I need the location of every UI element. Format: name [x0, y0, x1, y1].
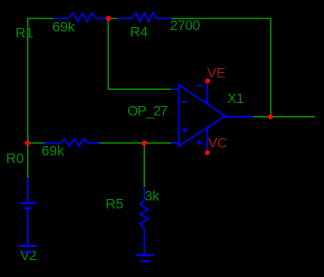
- node VE terminal dot: [205, 79, 210, 84]
- non-inverting input plus marker: [182, 127, 188, 133]
- svg-text:X1: X1: [227, 90, 244, 106]
- wire between junction and R4: [111, 18, 118, 20]
- battery V2 lead bottom: [27, 209, 29, 246]
- svg-text:2700: 2700: [170, 17, 200, 33]
- wire feedback horizontal to inverting input: [108, 88, 171, 90]
- pin stub non-inverting input of op-amp X1: [171, 142, 179, 144]
- wire from left junction to R0: [28, 142, 45, 144]
- battery V2 plates: [20, 203, 37, 208]
- resistor R4: [118, 13, 172, 22]
- svg-text:OP_27: OP_27: [127, 102, 168, 118]
- power pin VC line: [206, 128, 208, 153]
- wire right vertical to output: [270, 18, 272, 117]
- svg-text:69k: 69k: [42, 142, 66, 158]
- node output junction dot: [268, 114, 273, 119]
- node VC terminal dot: [205, 150, 210, 155]
- resistor R1: [54, 13, 106, 22]
- wire from R4 to top-right corner: [172, 18, 271, 20]
- svg-text:R0: R0: [6, 150, 24, 166]
- svg-text:R1: R1: [16, 24, 34, 40]
- inverting input minus marker: [182, 101, 187, 103]
- wire R5 branch vertical green: [143, 143, 145, 187]
- node junction dot R0 left (V2 branch): [25, 140, 30, 145]
- node junction dot (R1/R4/feedback): [106, 16, 111, 21]
- svg-text:69k: 69k: [52, 19, 76, 35]
- resistor R0: [45, 139, 100, 146]
- wire op-amp output lead (blue): [226, 116, 254, 118]
- wire feedback vertical to inverting input: [107, 19, 109, 90]
- svg-text:3k: 3k: [145, 188, 161, 204]
- svg-text:R5: R5: [106, 196, 124, 212]
- ground symbol under R5: [136, 255, 154, 261]
- pin stub inverting input of op-amp X1: [171, 88, 179, 90]
- svg-text:V2: V2: [20, 247, 37, 263]
- wire top-left vertical (node IN- branch): [27, 19, 29, 179]
- svg-text:R4: R4: [130, 23, 148, 39]
- resistor R5: [140, 187, 148, 254]
- op-amp X1 triangle: [179, 85, 226, 146]
- node junction dot (R0/R5/+input): [142, 140, 147, 145]
- svg-text:VE: VE: [207, 64, 226, 80]
- wire top horizontal left of R1: [27, 18, 53, 20]
- power pin VC plus marker: [196, 140, 202, 145]
- power pin VE minus marker: [197, 85, 203, 87]
- battery V2 lead top (blue): [27, 178, 29, 203]
- svg-text:VC: VC: [208, 135, 227, 151]
- power pin VE line: [206, 81, 208, 104]
- wire from R0 to middle junction: [99, 142, 171, 144]
- wire output to right edge: [253, 116, 315, 118]
- ground symbol under V2: [18, 246, 37, 252]
